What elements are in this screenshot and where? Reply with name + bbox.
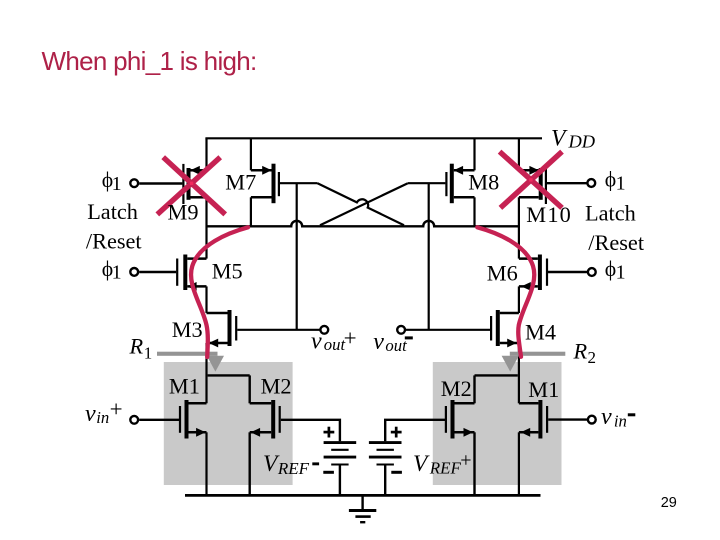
- svg-text:ϕ: ϕ: [605, 168, 616, 192]
- svg-text:M3: M3: [172, 317, 203, 342]
- label M7: [225, 170, 256, 195]
- label phi1 top-right: [605, 168, 626, 195]
- label Latch/Reset left: [86, 199, 143, 253]
- wire phi1 mid-right terminal lead: [548, 271, 587, 273]
- node vout- terminal: [397, 326, 405, 334]
- battery VREF+: [369, 427, 402, 473]
- wire vin+ terminal lead: [139, 419, 179, 421]
- annotation X over M10: [500, 152, 562, 208]
- transistor M1 left pair: [180, 400, 207, 439]
- label M10: [526, 202, 572, 227]
- label VREF-: [263, 451, 319, 478]
- wire latch bottom bus with hops over vout verticals: [207, 221, 519, 226]
- svg-text:V: V: [413, 451, 430, 477]
- wire phi1 top-right terminal lead: [547, 182, 587, 184]
- transistor M6: [519, 255, 547, 291]
- svg-text:+: +: [344, 326, 357, 351]
- resistor arrow R2 (gray pointer into right branch): [502, 352, 566, 372]
- wire phi1 mid-left terminal lead: [139, 271, 176, 273]
- svg-text:M9: M9: [168, 200, 199, 225]
- label M4: [525, 320, 556, 345]
- node vout+ terminal: [320, 326, 328, 334]
- transistor M9: [183, 164, 206, 204]
- svg-text:+: +: [110, 397, 123, 422]
- annotation X over M9: [157, 157, 225, 214]
- node vin+ terminal: [130, 416, 138, 424]
- resistor arrow R1 (gray pointer into left branch): [157, 352, 224, 372]
- label M2 right: [441, 376, 472, 401]
- label vout-: [373, 329, 413, 355]
- svg-text:+: +: [460, 450, 471, 472]
- ground: [349, 495, 376, 522]
- node phi1 top-left terminal: [130, 179, 138, 187]
- svg-text:v: v: [311, 328, 322, 354]
- svg-text:out: out: [324, 335, 346, 354]
- wire M2(right) gate to VREF+ battery: [385, 420, 445, 441]
- transistor M7: [251, 164, 279, 204]
- svg-text:M2: M2: [261, 374, 292, 399]
- svg-text:v: v: [85, 401, 96, 427]
- label R2: [573, 338, 597, 367]
- svg-text:M7: M7: [225, 170, 256, 195]
- battery VREF-: [323, 427, 356, 473]
- wire vout- node vertical (M8 gate to M4 gate): [428, 183, 430, 330]
- wire VDD top rail: [205, 137, 542, 139]
- transistor M3: [207, 310, 237, 347]
- label M5: [212, 258, 243, 283]
- wire M3 gate lead to vout+: [237, 329, 319, 331]
- svg-text:v: v: [373, 329, 384, 355]
- svg-text:Latch: Latch: [87, 199, 138, 224]
- wire left main vertical (M9/M5/M3/M1 column): [205, 138, 207, 495]
- svg-text:Latch: Latch: [585, 201, 636, 226]
- svg-text:/Reset: /Reset: [588, 230, 645, 255]
- svg-text:M8: M8: [468, 170, 499, 195]
- label phi1 top-left: [102, 168, 122, 195]
- wire M8 drain/source vertical: [473, 138, 475, 227]
- label M8: [468, 170, 499, 195]
- wire right pair drain bridge: [475, 375, 518, 495]
- wire right main vertical (M10/M6/M4/M1 column): [518, 138, 520, 495]
- svg-text:1: 1: [616, 173, 626, 195]
- label M1 left: [169, 374, 200, 399]
- label vin-: [601, 404, 635, 431]
- wire M2(left) gate to VREF- battery: [281, 420, 340, 441]
- annotation curve right (latch node to R2): [477, 227, 534, 356]
- wire cross-coupling diagonal from M8 gate: [320, 183, 408, 225]
- svg-text:2: 2: [588, 348, 597, 367]
- transistor M2 left pair: [250, 400, 280, 439]
- svg-text:M10: M10: [526, 202, 572, 227]
- node phi1 top-right terminal: [587, 179, 595, 187]
- label M1 right: [528, 377, 559, 402]
- svg-text:out: out: [385, 336, 407, 355]
- wire vin- terminal lead: [548, 418, 587, 420]
- label M3: [172, 317, 203, 342]
- page number: [661, 496, 677, 511]
- label phi1 mid-left: [102, 257, 122, 284]
- svg-text:V: V: [551, 125, 568, 151]
- svg-text:DD: DD: [568, 132, 596, 152]
- label vin+: [85, 397, 123, 427]
- node phi1 mid-left terminal: [130, 268, 138, 276]
- label VREF+: [413, 450, 472, 478]
- svg-text:REF: REF: [429, 458, 462, 477]
- annotation curve left (latch node to R1): [191, 227, 248, 357]
- label M2 left: [261, 374, 292, 399]
- svg-text:R: R: [129, 334, 144, 359]
- wire VREF- battery to ground rail: [339, 465, 341, 495]
- wire M7 drain/source vertical: [250, 138, 252, 227]
- transistor M5: [177, 255, 206, 291]
- gray box left differential pair: [164, 362, 293, 485]
- svg-text:M6: M6: [487, 260, 518, 285]
- transistor M8: [446, 164, 474, 204]
- wire cross-coupling diagonal from M7 gate with hop: [318, 183, 405, 225]
- svg-text:M5: M5: [212, 258, 243, 283]
- wire M4 gate lead to vout-: [406, 329, 490, 331]
- label phi1 mid-right: [605, 257, 626, 284]
- wire VREF+ battery to ground rail: [384, 465, 386, 495]
- svg-text:REF: REF: [277, 459, 310, 478]
- svg-text:v: v: [601, 404, 612, 430]
- transistor M1 right pair: [519, 400, 547, 439]
- gray box right differential pair: [433, 362, 562, 485]
- node phi1 mid-right terminal: [588, 268, 596, 276]
- svg-text:1: 1: [112, 173, 122, 195]
- wire phi1 top-left terminal lead: [139, 182, 182, 184]
- label vout+: [311, 326, 357, 355]
- svg-text:/Reset: /Reset: [86, 229, 143, 254]
- label VDD: [551, 125, 595, 151]
- svg-text:M2: M2: [441, 376, 472, 401]
- label Latch/Reset right: [585, 201, 645, 256]
- svg-text:M4: M4: [525, 320, 556, 345]
- label M6: [487, 260, 518, 285]
- svg-text:ϕ: ϕ: [605, 257, 616, 281]
- wire left pair drain bridge: [208, 375, 250, 495]
- svg-text:1: 1: [616, 262, 626, 284]
- svg-text:in: in: [96, 408, 109, 427]
- wire vout+ node vertical (M7 gate to M3 gate): [296, 183, 298, 330]
- svg-text:in: in: [614, 412, 627, 431]
- svg-text:M1: M1: [528, 377, 559, 402]
- svg-text:1: 1: [144, 343, 153, 362]
- transistor M10: [519, 164, 546, 204]
- transistor M2 right pair: [446, 400, 475, 439]
- transistor M4: [491, 310, 519, 347]
- wire M8 gate lead: [408, 182, 446, 184]
- label R1: [129, 334, 153, 363]
- node vin- terminal: [588, 416, 596, 424]
- svg-text:R: R: [573, 338, 588, 363]
- wire ground rail: [185, 494, 541, 497]
- svg-text:1: 1: [112, 262, 122, 284]
- label M9: [168, 200, 199, 225]
- slide title: [42, 46, 257, 77]
- svg-text:M1: M1: [169, 374, 200, 399]
- wire M7 gate lead: [280, 182, 318, 184]
